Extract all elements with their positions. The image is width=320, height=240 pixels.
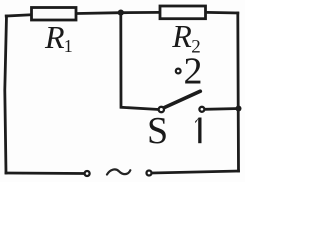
wire: top middle segment	[78, 12, 159, 13]
switch contact 1	[199, 107, 204, 112]
switch contact 2	[176, 69, 181, 74]
wire: middle vertical from junction to switch	[121, 13, 158, 110]
AC source right terminal	[147, 171, 152, 176]
svg-text:1: 1	[64, 36, 73, 56]
switch S lever	[164, 91, 200, 107]
wire: right border	[236, 13, 239, 171]
wire: contact 1 to right border	[205, 107, 238, 111]
node: junction dot on right border	[236, 106, 242, 112]
node: junction dot on top wire	[118, 10, 124, 16]
svg-text:R: R	[44, 19, 65, 55]
resistor R1	[32, 8, 77, 21]
svg-text:R: R	[171, 18, 192, 54]
label 1 (contact)	[195, 118, 201, 144]
AC source left terminal	[85, 171, 90, 176]
wire: bottom-right segment	[153, 171, 239, 173]
wire: top-left segment	[6, 15, 30, 16]
svg-text:S: S	[147, 110, 168, 152]
resistor R2	[160, 6, 206, 19]
wire: bottom-left segment	[6, 172, 84, 175]
AC source ~ symbol	[107, 169, 130, 174]
svg-text:2: 2	[184, 50, 203, 92]
switch S pivot	[159, 107, 164, 112]
wire: left border	[5, 16, 7, 173]
wire: top-right segment	[207, 11, 238, 14]
